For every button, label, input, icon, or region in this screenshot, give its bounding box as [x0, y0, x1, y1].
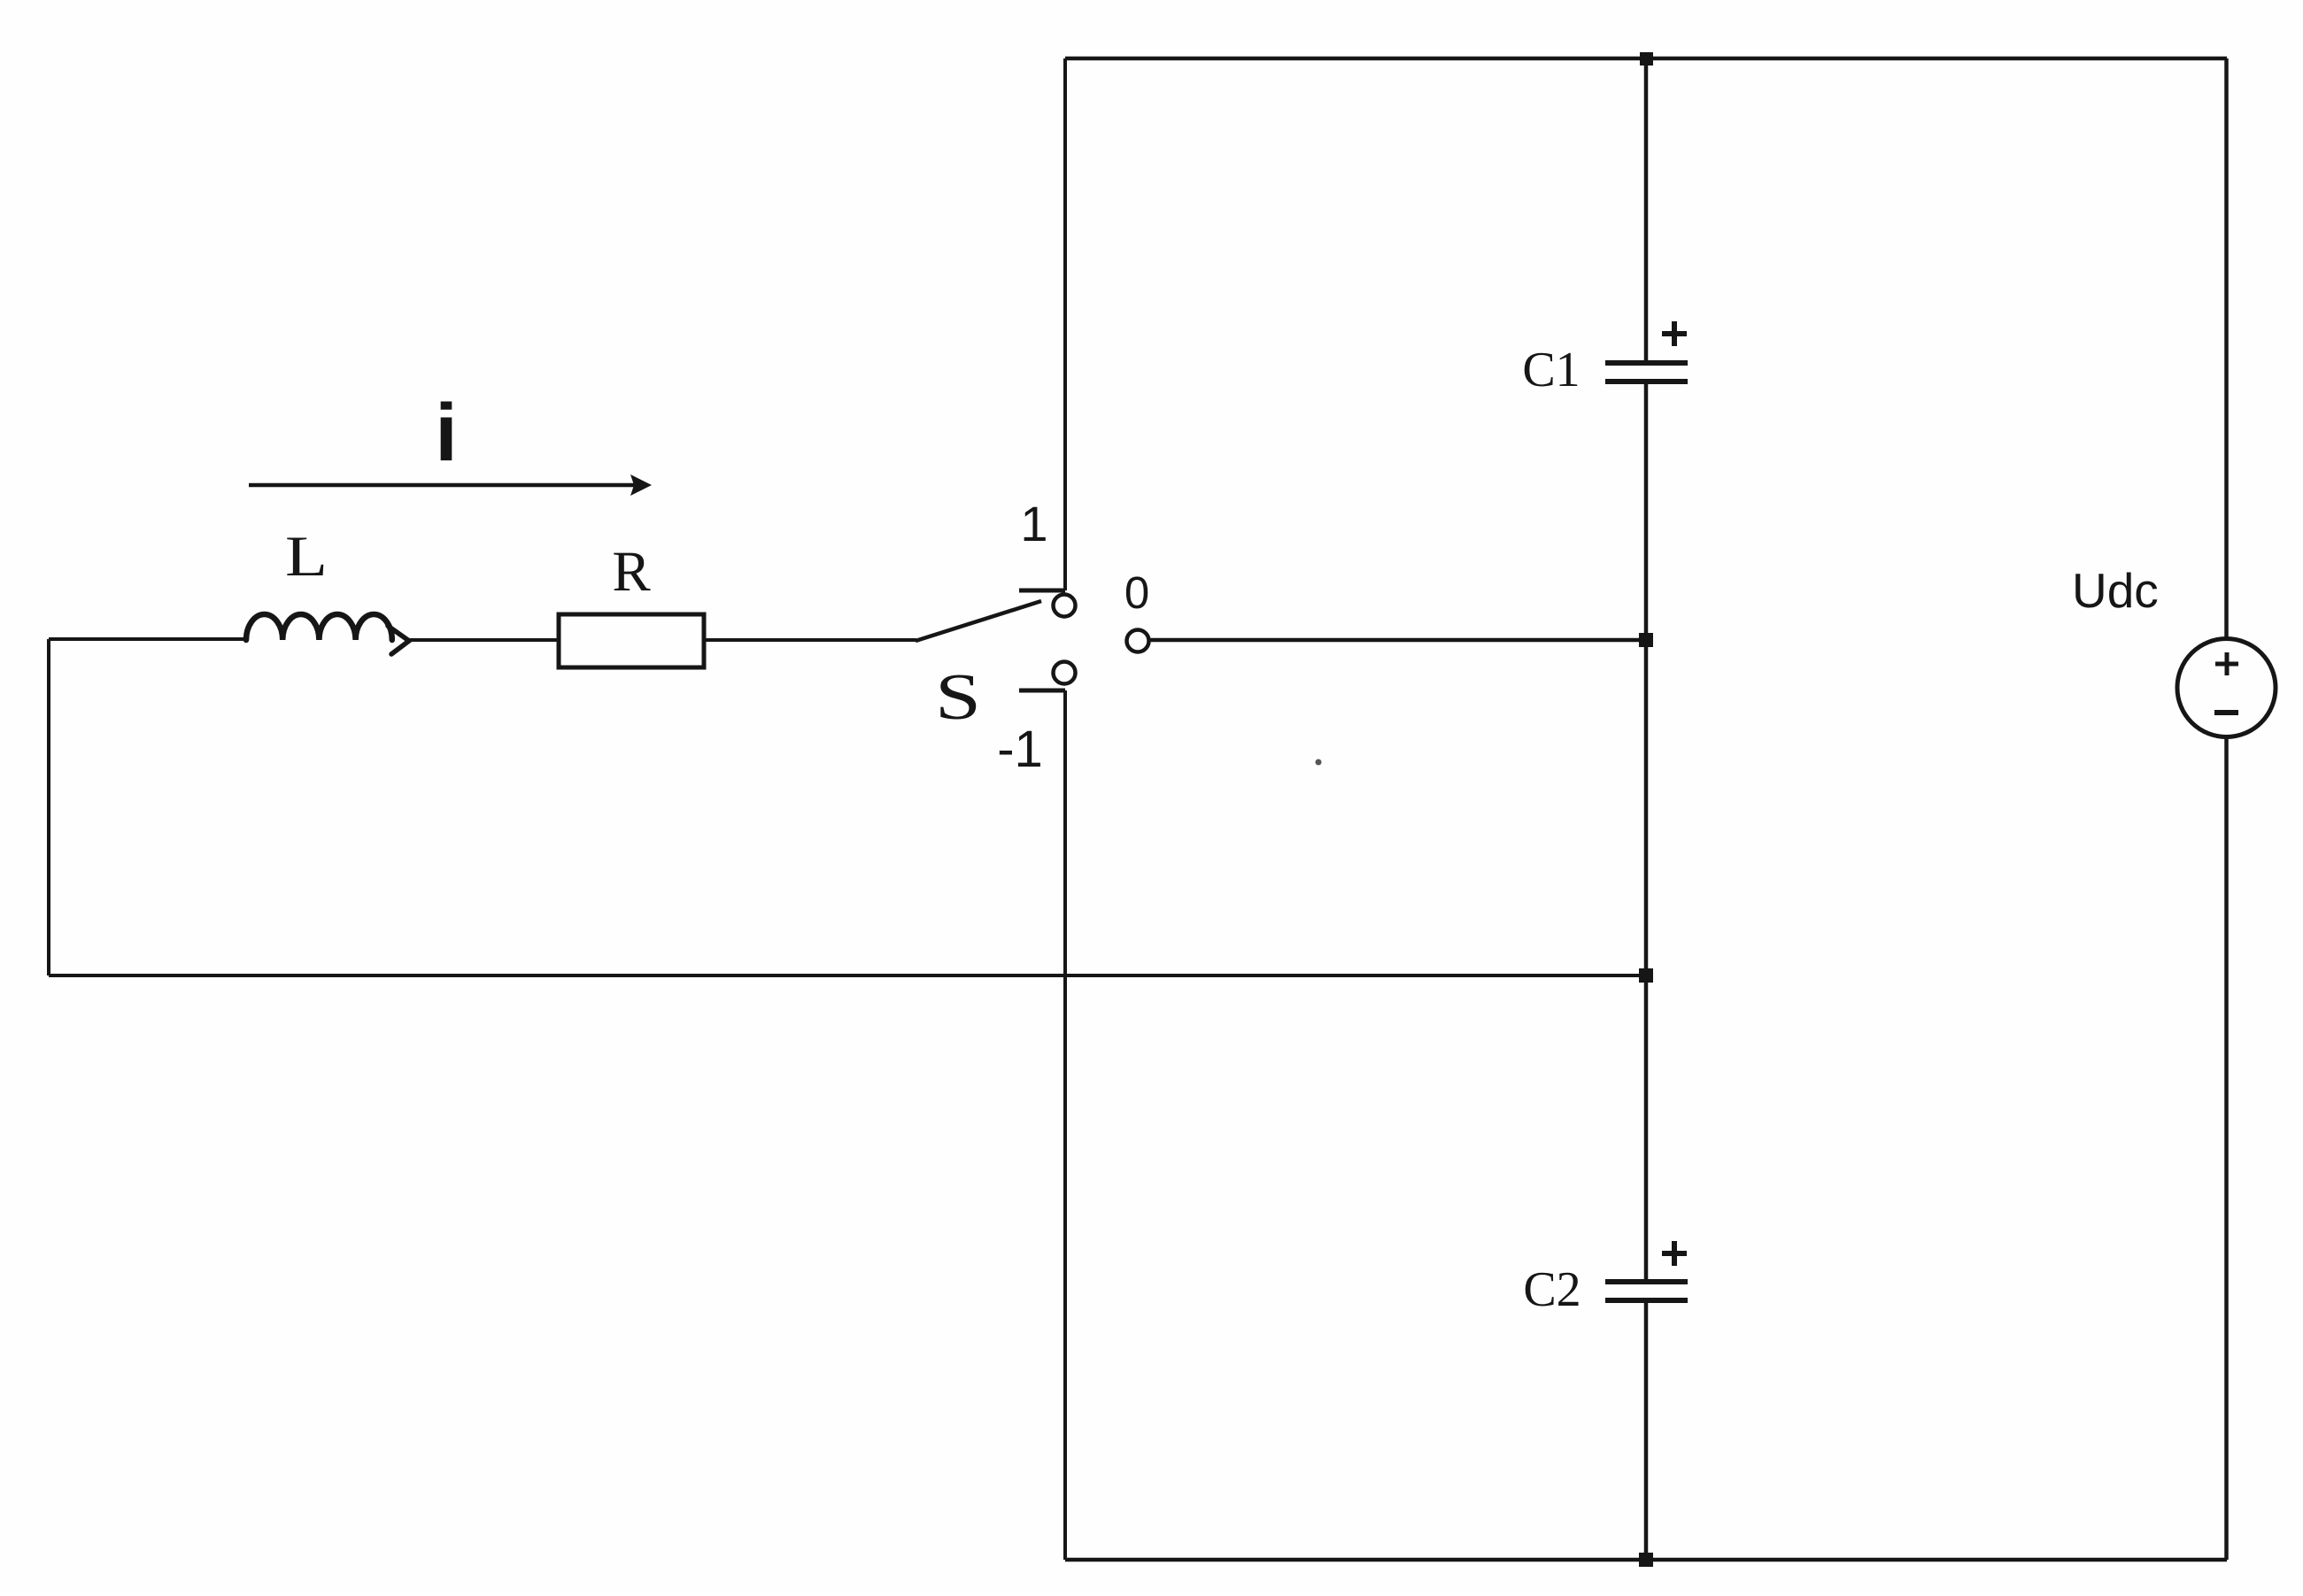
wire capacitor branch lower: [1644, 1302, 1649, 1560]
svg-text:S: S: [935, 661, 981, 734]
voltage source Udc: [2177, 639, 2276, 737]
switch S terminal 1 tick: [1019, 589, 1065, 593]
svg-text:C1: C1: [1522, 343, 1580, 397]
wire inner-left vertical top: [1063, 58, 1067, 590]
current arrow i: [249, 474, 652, 496]
wire bottom bus: [1065, 1558, 2227, 1562]
svg-text:0: 0: [1124, 567, 1149, 618]
capacitor C2: [1605, 1282, 1688, 1300]
polarity + C1: [1662, 321, 1687, 346]
stray dot artifact: [1316, 759, 1322, 766]
junction node bottom: [1639, 1553, 1653, 1567]
wire inductor to resistor: [407, 638, 559, 642]
resistor R: [559, 614, 704, 667]
svg-text:Udc: Udc: [2072, 563, 2159, 618]
polarity + Udc: [2215, 652, 2238, 675]
junction node top: [1640, 52, 1653, 66]
capacitor C1: [1605, 363, 1688, 382]
wire inner-left vertical bottom: [1063, 690, 1067, 1560]
wire top bus: [1065, 57, 2227, 61]
polarity - Udc: [2214, 710, 2238, 715]
switch S blade: [916, 601, 1041, 641]
wire left vertical: [47, 639, 50, 975]
polarity + C2: [1662, 1241, 1687, 1266]
switch S terminal 0 contact: [1127, 630, 1149, 652]
wire terminal 0 to node A: [1148, 638, 1646, 643]
wire resistor to switch blade: [704, 638, 916, 642]
switch S terminal -1 tick: [1019, 689, 1065, 693]
svg-text:C2: C2: [1523, 1262, 1580, 1317]
wire right vertical upper: [2224, 58, 2229, 640]
svg-text:i: i: [435, 388, 458, 478]
svg-text:1: 1: [1020, 496, 1047, 551]
wire capacitor branch middle: [1644, 383, 1649, 1281]
wire capacitor branch upper: [1644, 58, 1649, 362]
wire bottom-left return: [49, 974, 1646, 977]
wire right vertical lower: [2224, 736, 2229, 1560]
svg-text:R: R: [612, 540, 651, 604]
junction node B: [1639, 968, 1653, 983]
svg-text:-1: -1: [997, 721, 1043, 778]
wire left-top from edge to inductor: [49, 637, 248, 641]
junction node A: [1639, 633, 1653, 647]
switch S terminal -1 contact: [1054, 662, 1076, 684]
svg-text:L: L: [285, 525, 328, 589]
inductor L: [246, 614, 409, 654]
switch S terminal 1 contact: [1054, 595, 1076, 617]
